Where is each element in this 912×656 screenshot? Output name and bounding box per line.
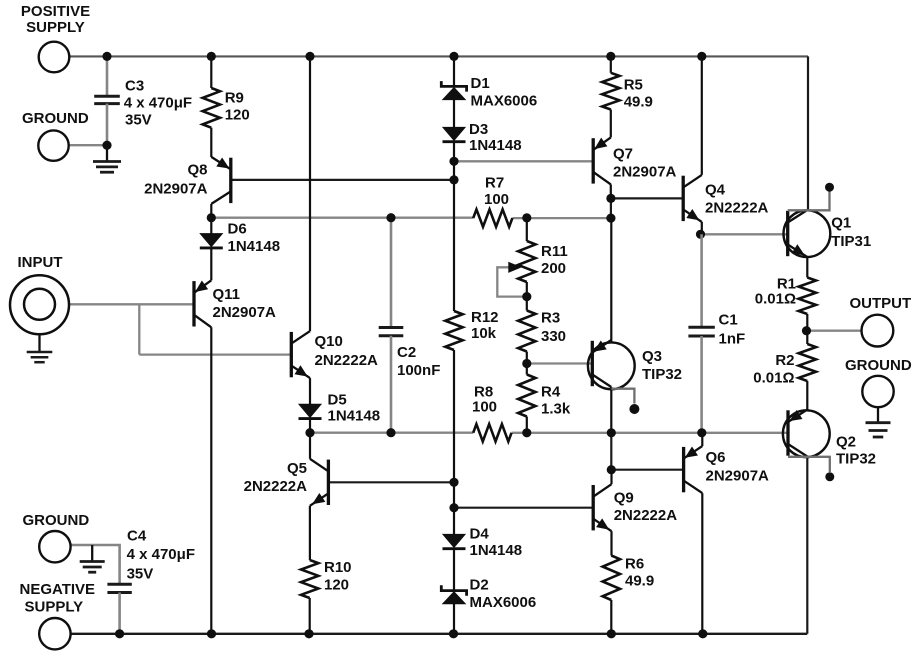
wire Q1 emitter to R1: [806, 257, 808, 278]
svg-text:35V: 35V: [127, 566, 154, 583]
svg-text:200: 200: [541, 260, 566, 277]
node Q5 base junction: [449, 478, 458, 487]
svg-text:4 x 470μF: 4 x 470μF: [124, 95, 192, 112]
transistor Q11: [192, 281, 195, 326]
svg-text:100: 100: [472, 399, 497, 416]
wire Q4 emitter to Q1 base: [701, 233, 788, 235]
wire input branch down: [138, 304, 140, 354]
svg-text:R12: R12: [471, 309, 499, 326]
wire Q10 emitter to D5: [309, 378, 311, 404]
terminal negative supply: [39, 618, 70, 649]
transistor Q3 TIP32: [591, 341, 594, 386]
wire Q9 emitter to R6: [610, 531, 612, 555]
svg-text:10k: 10k: [471, 325, 497, 342]
node bottom rail junction x453: [449, 629, 458, 638]
wire Q3 collector down: [610, 387, 612, 433]
ground symbol on C4 ground wire: [91, 545, 93, 562]
node Q9 collector / Q6 base: [607, 465, 616, 474]
resistor R2: [799, 344, 816, 381]
node Q8 collector junction: [207, 213, 216, 222]
node top rail junction x701: [697, 52, 706, 61]
svg-text:GROUND: GROUND: [845, 357, 912, 374]
wire stub between y433 and Q6 base node: [610, 433, 612, 470]
node top rail junction x310: [305, 52, 314, 61]
svg-text:Q10: Q10: [315, 333, 343, 350]
terminal input connector: [10, 275, 69, 334]
wire node at y218 left of R7: [211, 217, 473, 219]
wire R2 to Q2 emitter: [806, 381, 808, 410]
wire Q7 collector to Q4 base: [611, 197, 683, 199]
wire ground to C3: [69, 144, 107, 146]
node top rail junction x454: [449, 52, 458, 61]
svg-text:35V: 35V: [125, 112, 152, 129]
svg-text:TIP32: TIP32: [642, 366, 682, 383]
svg-text:100: 100: [484, 191, 509, 208]
ground symbol below C3: [106, 145, 108, 161]
resistor R4: [518, 375, 535, 417]
node Q7 collector: [606, 194, 615, 203]
capacitor C4: [107, 583, 131, 586]
wire Q11 collector down to bottom rail: [210, 327, 212, 634]
svg-text:4 x 470μF: 4 x 470μF: [127, 546, 195, 563]
svg-text:R5: R5: [624, 77, 643, 94]
wire positive supply top rail: [69, 55, 808, 57]
svg-text:C3: C3: [125, 78, 144, 95]
capacitor C3: [106, 56, 109, 96]
node C2 bottom junction: [386, 428, 395, 437]
diode D6: [210, 218, 212, 234]
resistor R6: [603, 556, 620, 601]
svg-text:R2: R2: [775, 352, 794, 369]
transistor Q6: [682, 447, 685, 492]
terminal ground top-left: [38, 130, 68, 160]
svg-text:2N2222A: 2N2222A: [315, 352, 379, 369]
ground symbol below right ground: [877, 407, 879, 423]
transistor Q5: [327, 460, 330, 505]
node Q7 base junction: [449, 157, 458, 166]
transistor Q9: [592, 485, 595, 530]
svg-text:Q11: Q11: [213, 286, 241, 303]
svg-text:1.3k: 1.3k: [541, 401, 571, 418]
svg-text:GROUND: GROUND: [22, 110, 89, 127]
wire input to Q11 base: [69, 303, 194, 305]
resistor R1: [799, 278, 816, 315]
svg-text:R10: R10: [324, 559, 352, 576]
svg-text:R7: R7: [485, 175, 504, 192]
capacitor C2: [390, 218, 393, 328]
svg-text:D2: D2: [470, 577, 489, 594]
node bottom rail junction x702: [698, 629, 707, 638]
node column x211: [210, 56, 212, 88]
node bottom rail junction x611: [607, 629, 616, 638]
svg-text:INPUT: INPUT: [18, 254, 63, 271]
terminal output: [862, 315, 894, 347]
node C2 top junction: [386, 213, 395, 222]
node y433 at x611: [607, 428, 616, 437]
wire top rail to D1: [453, 56, 455, 86]
svg-text:Q6: Q6: [706, 449, 726, 466]
node bottom rail junction x119: [115, 629, 124, 638]
svg-text:MAX6006: MAX6006: [470, 594, 537, 611]
svg-text:Q8: Q8: [187, 162, 207, 179]
wire Q8 base to diode column: [231, 179, 454, 181]
svg-text:0.01Ω: 0.01Ω: [753, 370, 794, 387]
node Q4 emitter / Q1 base / C1: [696, 230, 705, 239]
svg-text:Q1: Q1: [831, 215, 851, 232]
node R7-R11 junction: [522, 213, 531, 222]
svg-text:49.9: 49.9: [625, 573, 654, 590]
svg-text:2N2907A: 2N2907A: [613, 163, 677, 180]
svg-text:2N2222A: 2N2222A: [614, 507, 678, 524]
svg-text:100nF: 100nF: [397, 362, 440, 379]
wire top rail to Q4 collector: [701, 56, 703, 174]
wire Q6 emitter up to y433: [701, 433, 703, 446]
node wiper junction: [522, 292, 531, 301]
svg-text:Q4: Q4: [705, 182, 726, 199]
wire bottom negative rail: [71, 633, 808, 635]
potentiometer R11: [518, 241, 535, 282]
wire R12 down through crossings: [453, 350, 455, 534]
svg-text:NEGATIVE: NEGATIVE: [20, 581, 96, 598]
wire stub Q7 collector node: [610, 198, 612, 218]
wire Q5 emitter to R10: [309, 506, 311, 560]
wire Q2 collector down right side: [806, 457, 808, 634]
wire R7 junction down to R11: [526, 218, 528, 241]
wire R5 to Q7 emitter: [610, 110, 612, 138]
wire node at y218 right of R7: [512, 217, 611, 219]
node Q8 base junction: [449, 175, 458, 184]
resistor R7: [473, 209, 512, 226]
node y218 right end: [606, 214, 615, 223]
node R4 bottom junction: [522, 428, 531, 437]
wire Q8 collector down: [210, 204, 212, 218]
node top rail junction x610: [606, 52, 615, 61]
svg-text:Q2: Q2: [836, 434, 856, 451]
svg-text:2N2907A: 2N2907A: [144, 181, 208, 198]
wire Q3 emitter up to y218 node: [610, 218, 612, 342]
svg-text:Q3: Q3: [642, 348, 662, 365]
resistor R10: [301, 560, 318, 598]
svg-text:TIP32: TIP32: [836, 451, 876, 468]
svg-text:120: 120: [324, 577, 349, 594]
resistor R12: [445, 311, 462, 350]
transistor Q10: [290, 332, 293, 377]
resistor R9: [203, 88, 220, 128]
node output junction: [802, 326, 811, 335]
svg-text:Q9: Q9: [614, 490, 634, 507]
wire y433 left of R8: [310, 432, 473, 434]
node top rail junction x107: [102, 52, 111, 61]
transistor Q4: [682, 176, 685, 221]
node top rail junction x211: [207, 52, 216, 61]
node bottom rail junction x309: [304, 629, 313, 638]
wire R3/R4 junction to Q3 base: [527, 362, 593, 364]
diode D4: [443, 534, 465, 547]
transistor Q7: [592, 138, 595, 183]
svg-text:2N2907A: 2N2907A: [213, 304, 277, 321]
zener diode D2: [441, 585, 466, 596]
wire D3 to R12: [453, 142, 455, 311]
svg-text:Q5: Q5: [287, 460, 307, 477]
wire R11 to R3: [526, 282, 528, 311]
node Q9 base junction: [449, 503, 458, 512]
svg-text:1N4148: 1N4148: [328, 408, 381, 425]
svg-text:2N2222A: 2N2222A: [705, 200, 769, 217]
Q2 tab stub: [788, 457, 830, 472]
wire column x310 from top rail: [309, 56, 311, 331]
wire D3 junction to Q7 base: [454, 160, 593, 162]
node D5 bottom junction: [305, 428, 314, 437]
wire Q4 emitter down: [701, 222, 703, 234]
terminal ground bottom-left: [39, 531, 70, 562]
Q3 tab stub: [611, 389, 634, 404]
ground symbol below input: [38, 334, 40, 352]
transistor Q8: [229, 158, 232, 203]
capacitor C1: [700, 234, 703, 327]
wire right-side rail down to Q1 collector: [807, 56, 809, 210]
terminal positive supply: [39, 42, 70, 73]
wire to Q10 base: [139, 353, 291, 355]
diode D5: [299, 404, 321, 417]
svg-text:R6: R6: [625, 556, 644, 573]
svg-text:1N4148: 1N4148: [470, 542, 523, 559]
svg-text:49.9: 49.9: [624, 94, 653, 111]
svg-text:D6: D6: [228, 221, 247, 238]
wire Q6 base: [611, 469, 683, 471]
resistor R3: [518, 311, 535, 352]
svg-text:OUTPUT: OUTPUT: [850, 295, 912, 312]
svg-text:C4: C4: [127, 528, 147, 545]
svg-text:D1: D1: [471, 75, 490, 92]
svg-text:D3: D3: [469, 121, 488, 138]
svg-text:GROUND: GROUND: [23, 512, 90, 529]
node Q3 base junction: [522, 359, 531, 368]
node Q6 emitter / C1 bottom: [697, 428, 706, 437]
wire top rail to R5: [610, 56, 612, 72]
Q1 tab stub: [788, 192, 830, 211]
transistor Q2 TIP32: [786, 410, 789, 455]
wire Q9 collector up: [610, 470, 612, 485]
svg-text:1N4148: 1N4148: [469, 137, 522, 154]
svg-text:R11: R11: [541, 243, 568, 260]
node bottom rail junction x211: [207, 629, 216, 638]
svg-text:MAX6006: MAX6006: [471, 93, 538, 110]
diode D3: [443, 127, 465, 140]
svg-text:1nF: 1nF: [719, 331, 746, 348]
svg-text:R3: R3: [541, 310, 560, 327]
zener diode D1: [441, 81, 466, 92]
svg-text:SUPPLY: SUPPLY: [25, 599, 84, 616]
svg-text:120: 120: [225, 107, 250, 124]
wire ground to C4: [70, 545, 120, 584]
node C3 ground junction: [102, 141, 111, 150]
wire Q7 collector down: [610, 184, 612, 198]
terminal ground right: [862, 376, 893, 407]
svg-text:C2: C2: [397, 344, 416, 361]
svg-text:330: 330: [541, 328, 566, 345]
svg-text:TIP31: TIP31: [831, 233, 871, 250]
svg-text:D5: D5: [328, 392, 347, 409]
wire Q9 base: [454, 507, 593, 509]
svg-text:Q7: Q7: [613, 146, 633, 163]
svg-text:1N4148: 1N4148: [228, 238, 281, 255]
svg-text:R9: R9: [225, 90, 244, 107]
resistor R8: [473, 424, 511, 441]
svg-text:0.01Ω: 0.01Ω: [755, 291, 796, 308]
svg-text:POSITIVE: POSITIVE: [21, 3, 90, 20]
transistor Q1 TIP31: [786, 211, 789, 256]
svg-text:SUPPLY: SUPPLY: [26, 19, 85, 36]
svg-text:C1: C1: [719, 312, 738, 329]
resistor R5: [602, 73, 619, 110]
wire y433 right of R8 to Q2 base: [512, 432, 789, 434]
svg-text:R4: R4: [541, 384, 561, 401]
wire R3 to R4: [526, 352, 528, 375]
R11 wiper: [497, 267, 527, 296]
wire output: [807, 330, 862, 332]
wire Q5 base: [328, 481, 454, 483]
svg-text:2N2222A: 2N2222A: [244, 478, 308, 495]
wire Q6 collector down to rail: [701, 493, 703, 634]
svg-text:D4: D4: [470, 526, 490, 543]
svg-text:2N2907A: 2N2907A: [706, 468, 770, 485]
